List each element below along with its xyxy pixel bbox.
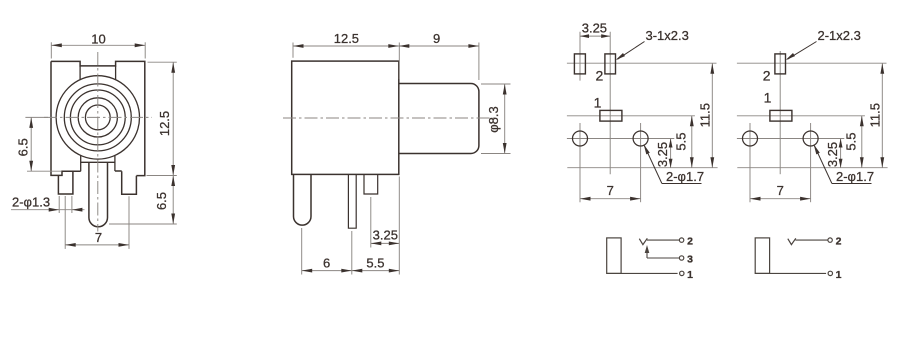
pcb layout 2: left hole centerline vertical [749, 123, 751, 202]
dimension right 6.5 arrows [171, 176, 175, 187]
pcb layout 1: hole center reference line [567, 138, 674, 140]
front view: outer circle (shell) [56, 76, 139, 159]
pcb layout 2: hole center reference line [737, 138, 844, 140]
pcb layout 1: left column vertical through left slot [579, 32, 581, 81]
pcb layout 2: dimension 5.5 line [861, 116, 863, 168]
side view: ground pin with rounded tip [294, 174, 312, 225]
svg-text:6.5: 6.5 [15, 138, 30, 156]
pcb layout 1: slot for pin 1 [600, 110, 622, 121]
pcb layout 2: slot for pin 2 [775, 54, 786, 74]
dimension 5.5 arrows [352, 269, 363, 273]
pcb layout 1: right hole centerline vertical [640, 123, 642, 202]
dimension 9 line [399, 45, 479, 47]
pcb layout 2: middle reference line through slot 1 [737, 115, 865, 117]
dimension 10 line [51, 44, 145, 46]
pcb layout 1: left hole phi1.7 [573, 131, 588, 146]
pcb layout 1: dimension 5.5 arrows [690, 116, 694, 127]
pcb layout 1: slot for pin 2 [605, 54, 616, 74]
schematic 1: wire to terminal 3 [647, 257, 679, 259]
schematic 1: jack body rectangle [607, 238, 621, 274]
dimension left 6.5 extension lines [25, 116, 48, 118]
dimension phi8.3 arrows [503, 84, 507, 95]
svg-text:7: 7 [607, 183, 614, 198]
svg-text:3.25: 3.25 [582, 21, 607, 36]
pcb layout 1: right hole phi1.7 [633, 131, 648, 146]
svg-text:3.25: 3.25 [373, 228, 398, 243]
svg-text:5.5: 5.5 [366, 255, 384, 270]
pcb layout 2: right hole phi1.7 [803, 131, 818, 146]
side view: short mounting stub [364, 174, 378, 194]
pcb layout 2: bottom reference line [737, 167, 887, 169]
svg-text:3.25: 3.25 [655, 142, 670, 167]
pcb layout 2: leader note 2-phi1.7 [815, 146, 832, 184]
pcb layout 1: dimension 3.25 top arrows [580, 34, 589, 38]
dimension 6 extension lines [301, 228, 303, 275]
dimension right 6.5 line [172, 176, 174, 225]
svg-text:1: 1 [594, 95, 602, 111]
front view: left solder pin [58, 172, 73, 194]
pcb layout 2: dimension 3.25 vertical line [840, 139, 842, 168]
dimension 12.5 line [172, 62, 174, 175]
svg-text:2-1x2.3: 2-1x2.3 [818, 28, 861, 43]
svg-text:2-φ1.3: 2-φ1.3 [12, 194, 50, 209]
dimension 9 extension line [478, 43, 480, 81]
svg-text:3-1x2.3: 3-1x2.3 [646, 28, 689, 43]
svg-text:3: 3 [687, 253, 693, 265]
svg-text:1: 1 [836, 269, 842, 281]
front view: circle 4 [78, 98, 117, 137]
pcb layout 2: center column vertical [779, 51, 781, 174]
schematic 2: wire to terminal 1 [755, 272, 826, 274]
side view: jack body rectangle [292, 61, 399, 174]
svg-text:2-φ1.7: 2-φ1.7 [836, 169, 874, 184]
front view: horizontal centerline [44, 116, 152, 118]
pcb layout 1: dimension 5.5 line [691, 116, 693, 168]
front view: RCA jack body outline [51, 61, 145, 175]
front dimension 7 arrows [65, 243, 76, 247]
dimension phi8.3 extension lines [481, 83, 511, 85]
front view: center hole circle [85, 105, 110, 130]
dimension 12.5 side arrows [293, 44, 304, 48]
front view: vertical centerline [97, 52, 99, 232]
svg-text:11.5: 11.5 [698, 103, 713, 127]
pcb layout 1: middle reference line through slot 1 [567, 115, 695, 117]
schematic 1: terminal 3 circle [679, 256, 683, 260]
schematic 2: wire to terminal 2 [795, 239, 828, 241]
dimension 12.5 extension lines [148, 61, 177, 63]
dimension 12.5 side extension lines [292, 43, 294, 58]
dimension left 6.5 line [30, 117, 32, 171]
side view: horizontal centerline [283, 117, 497, 119]
pcb layout 1: top reference line [567, 62, 717, 64]
svg-text:9: 9 [433, 31, 440, 46]
dimension 9 arrows [399, 44, 410, 48]
svg-text:10: 10 [91, 31, 105, 46]
front view: right solder pin [122, 171, 137, 194]
front dimension 7 extension lines [64, 196, 66, 249]
svg-text:3.25: 3.25 [825, 142, 840, 167]
pcb layout 1: bottom reference line [567, 167, 717, 169]
svg-text:11.5: 11.5 [868, 103, 883, 127]
label 2-phi1.3 arrows [49, 208, 60, 212]
svg-text:12.5: 12.5 [157, 111, 172, 136]
pcb layout 1: dimension 3.25 vertical arrows [669, 139, 673, 148]
schematic 1: wire to terminal 2 [647, 239, 680, 241]
schematic 2: terminal 1 circle [828, 271, 832, 275]
pcb layout 2: dimension 7 line [750, 198, 811, 200]
side view: long signal pin [348, 174, 356, 228]
svg-text:7: 7 [777, 183, 784, 198]
dimension 3.25 side line [371, 242, 400, 244]
schematic 1: terminal 1 circle [680, 271, 684, 275]
schematic 1: wire to terminal 1 [607, 272, 678, 274]
pcb layout 1: dimension 7 arrows [580, 197, 591, 201]
svg-text:2: 2 [596, 67, 604, 83]
front view: circle 3 [70, 90, 125, 145]
dimension 3.25 side arrows [371, 242, 382, 246]
pcb layout 2: dimension 7 arrows [750, 197, 761, 201]
dimension 12.5 arrows [171, 62, 175, 72]
pcb layout 2: dimension 5.5 arrows [860, 116, 864, 127]
svg-text:2: 2 [836, 236, 842, 248]
dimension 3.25 side extension lines [370, 197, 372, 248]
pcb layout 1: dimension 11.5 arrows [710, 63, 714, 73]
schematic 1: normally-closed contact arrow wire [646, 249, 648, 259]
dimension 10 extension lines [50, 42, 52, 58]
front view: notch corner verticals down to shell circle [80, 66, 116, 80]
dimension 6 line [302, 270, 352, 272]
pcb layout 1: left slot 1x2.3 [574, 54, 585, 74]
dimension 5.5 line [352, 270, 400, 272]
front view: shield channel verticals and chord [81, 155, 115, 171]
pcb layout 1: leader note 2-phi1.7 [645, 146, 662, 184]
svg-text:12.5: 12.5 [334, 31, 359, 46]
schematic 2: jack body rectangle [755, 238, 769, 274]
front dimension 7 line [65, 244, 129, 246]
pcb layout 1: dimension 7 line [580, 198, 641, 200]
svg-text:7: 7 [95, 230, 102, 245]
dimension right 6.5 extension line at pin tip [109, 223, 177, 225]
dimension left 6.5 arrows [29, 117, 33, 128]
dimension 10 arrows [51, 43, 62, 47]
pcb layout 2: dimension 11.5 line [881, 63, 883, 168]
svg-text:5.5: 5.5 [674, 133, 689, 151]
pcb layout 2: dimension 11.5 arrows [880, 63, 884, 73]
pcb layout 2: top reference line [737, 62, 887, 64]
pcb layout 1: dimension 3.25 vertical line [670, 139, 672, 168]
pcb layout 2: dimension 3.25 vertical arrows [839, 139, 843, 148]
dimension 12.5 side line [293, 45, 399, 47]
pcb layout 1: dimension 3.25 top line [580, 35, 610, 37]
dimension phi8.3 line [504, 84, 506, 154]
svg-text:2: 2 [687, 236, 693, 248]
svg-text:1: 1 [764, 90, 772, 106]
svg-text:5.5: 5.5 [844, 133, 859, 151]
schematic 2: switch lever contact [788, 238, 796, 244]
pcb layout 1: left hole centerline vertical [579, 123, 581, 202]
pcb layout 2: left hole phi1.7 [743, 131, 758, 146]
schematic 1: terminal 2 circle [679, 238, 683, 242]
svg-text:1: 1 [687, 269, 693, 281]
side view: front barrel with rounded end [399, 84, 479, 154]
svg-text:6.5: 6.5 [154, 192, 169, 210]
label 2-phi1.3 extension lines [58, 196, 60, 213]
svg-text:6: 6 [323, 255, 330, 270]
svg-text:φ8.3: φ8.3 [486, 106, 501, 133]
front view: central ground pin with rounded tip [89, 163, 108, 227]
pcb layout 1: center column vertical [609, 32, 611, 175]
label 2-phi1.3 dimension line [11, 209, 85, 211]
dimension 6 arrows [302, 269, 313, 273]
pcb layout 2: slot for pin 1 [770, 110, 792, 121]
schematic 2: terminal 2 circle [828, 238, 832, 242]
svg-text:2-φ1.7: 2-φ1.7 [666, 169, 704, 184]
pcb layout 2: right hole centerline vertical [810, 123, 812, 202]
pcb layout 1: dimension 11.5 line [711, 63, 713, 168]
svg-text:2: 2 [763, 67, 771, 83]
front view: circle 2 [64, 84, 131, 151]
schematic 1: switch lever contact [639, 238, 647, 244]
